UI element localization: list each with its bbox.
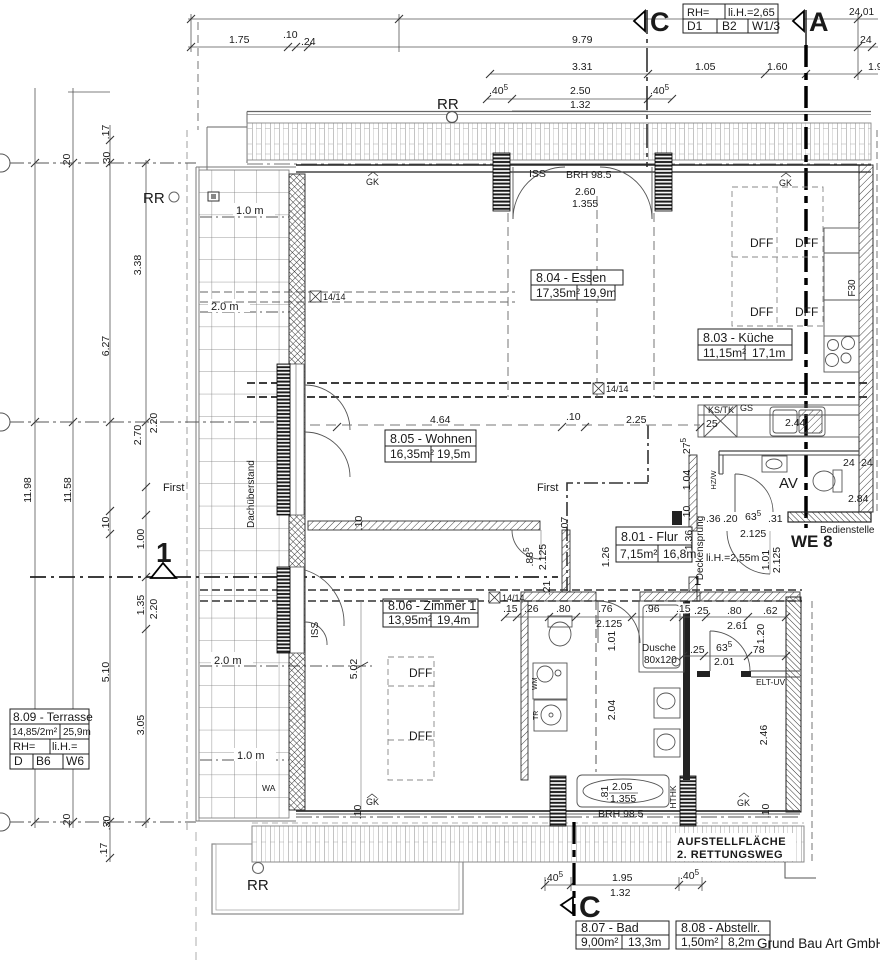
svg-text:W1/3: W1/3 <box>752 19 780 33</box>
kitchen right counter <box>824 228 859 372</box>
svg-text:First: First <box>163 482 184 494</box>
svg-text:li.H.=: li.H.= <box>52 741 77 753</box>
svg-text:2.61: 2.61 <box>727 620 748 632</box>
svg-text:First: First <box>537 482 558 494</box>
svg-text:D: D <box>14 754 23 768</box>
svg-text:DFF: DFF <box>409 729 432 743</box>
bath fixtures <box>533 601 684 807</box>
svg-text:.15: .15 <box>503 603 518 615</box>
svg-text:3.31: 3.31 <box>572 61 593 73</box>
svg-text:C: C <box>579 891 601 924</box>
svg-text:11.58: 11.58 <box>62 477 74 503</box>
svg-text:2.25: 2.25 <box>626 414 647 426</box>
svg-text:.30: .30 <box>101 152 113 167</box>
svg-text:5.02: 5.02 <box>348 659 360 680</box>
Wohnen dim row <box>310 424 700 426</box>
svg-text:AUFSTELLFLÄCHE: AUFSTELLFLÄCHE <box>677 835 786 848</box>
svg-text:GK: GK <box>366 797 379 807</box>
AV fixtures <box>762 456 842 492</box>
svg-text:W6: W6 <box>66 754 84 768</box>
svg-text:8.08 - Abstellr.: 8.08 - Abstellr. <box>681 921 760 935</box>
svg-text:.26: .26 <box>524 603 539 615</box>
svg-text:.80: .80 <box>556 603 571 615</box>
svg-text:19,4m: 19,4m <box>437 613 470 627</box>
svg-text:.15: .15 <box>676 603 691 615</box>
svg-text:1.355: 1.355 <box>572 198 598 210</box>
bath top dim row <box>505 617 786 656</box>
bottom wall <box>296 776 800 826</box>
svg-text:.10: .10 <box>283 29 298 41</box>
svg-text:.21: .21 <box>541 581 553 596</box>
svg-text:F30: F30 <box>847 279 858 297</box>
svg-text:ELT-UV: ELT-UV <box>756 677 785 687</box>
svg-text:13,3m: 13,3m <box>628 935 661 949</box>
svg-text:11.98: 11.98 <box>22 477 34 503</box>
svg-text:8.01 - Flur: 8.01 - Flur <box>621 530 678 544</box>
svg-text:1.36: 1.36 <box>683 530 695 551</box>
svg-text:2.05: 2.05 <box>612 781 633 793</box>
svg-text:WA: WA <box>262 783 276 793</box>
svg-text:1.355: 1.355 <box>610 793 636 805</box>
wall Flur/kitchen divider vertical <box>562 455 770 592</box>
svg-text:6.27: 6.27 <box>100 336 112 357</box>
abstell top wall <box>697 592 800 601</box>
lower right wall <box>786 597 801 812</box>
svg-text:11,15m²: 11,15m² <box>703 346 746 360</box>
AV room walls <box>719 451 859 512</box>
svg-text:13,95m²: 13,95m² <box>388 613 432 627</box>
svg-text:.76: .76 <box>598 603 613 615</box>
svg-text:1.32: 1.32 <box>570 99 591 111</box>
svg-text:RR: RR <box>247 877 269 894</box>
svg-text:9.79: 9.79 <box>572 34 593 46</box>
svg-text:KS/TK: KS/TK <box>708 405 734 415</box>
RR circle top <box>447 112 458 123</box>
svg-text:8.05 - Wohnen: 8.05 - Wohnen <box>390 432 472 446</box>
svg-text:24: 24 <box>843 457 855 469</box>
section 1 left <box>30 537 558 578</box>
DFF dashed rects kitchen <box>388 187 823 780</box>
svg-text:.78: .78 <box>750 644 765 656</box>
section A <box>793 7 829 528</box>
top table <box>683 4 780 33</box>
svg-text:.20: .20 <box>723 513 738 525</box>
svg-text:Dachüberstand: Dachüberstand <box>246 460 257 528</box>
Essen <box>531 270 623 300</box>
svg-text:2.125: 2.125 <box>596 618 622 630</box>
roof height contour lines on terrace <box>200 217 376 760</box>
dashed verticals in Essen (roof window) <box>507 213 509 397</box>
WM <box>533 663 567 699</box>
svg-text:16,35m²: 16,35m² <box>390 447 434 461</box>
svg-text:4.64: 4.64 <box>430 414 451 426</box>
Bad <box>576 921 669 949</box>
bath right wall <box>683 601 690 780</box>
Terrasse <box>10 709 93 769</box>
svg-text:2.70: 2.70 <box>132 425 144 446</box>
top roof overhang band <box>247 112 871 165</box>
svg-text:AV: AV <box>779 475 798 492</box>
bath left wall <box>521 601 528 780</box>
pillar at flur corner <box>672 511 682 525</box>
svg-text:2.20: 2.20 <box>148 413 160 434</box>
svg-text:1.9: 1.9 <box>868 61 880 73</box>
svg-text:B6: B6 <box>36 754 51 768</box>
section C top <box>567 7 670 592</box>
svg-text:.62: .62 <box>763 605 778 617</box>
bathtub <box>577 775 669 807</box>
bath dashed divider <box>595 601 597 772</box>
svg-text:14/14: 14/14 <box>606 384 629 394</box>
svg-text:Deckensprung: Deckensprung <box>695 516 706 580</box>
svg-text:.20: .20 <box>61 154 73 169</box>
svg-text:2.125: 2.125 <box>537 544 549 570</box>
svg-text:8.09 - Terrasse: 8.09 - Terrasse <box>13 710 93 724</box>
svg-text:.30: .30 <box>101 816 113 831</box>
svg-text:TR: TR <box>533 711 540 720</box>
svg-text:2.125: 2.125 <box>740 528 766 540</box>
svg-text:.96: .96 <box>645 603 660 615</box>
svg-text:Dusche: Dusche <box>642 643 676 654</box>
svg-text:2.04: 2.04 <box>606 700 618 721</box>
svg-text:.07: .07 <box>559 517 571 532</box>
svg-text:DFF: DFF <box>795 305 818 319</box>
svg-text:.10: .10 <box>566 411 581 423</box>
GK markers <box>366 177 792 808</box>
svg-text:14/14: 14/14 <box>502 593 525 603</box>
svg-text:2.0 m: 2.0 m <box>211 301 239 313</box>
5.02 extension line <box>360 601 362 810</box>
svg-text:8,2m: 8,2m <box>728 935 755 949</box>
svg-text:1.60: 1.60 <box>767 61 788 73</box>
svg-text:1.35: 1.35 <box>135 595 147 616</box>
left wall hatched <box>277 174 350 810</box>
Flur <box>616 527 696 562</box>
bath top wall <box>521 592 800 780</box>
14/14 markers <box>310 291 629 603</box>
top wall <box>296 153 871 219</box>
svg-text:GK: GK <box>737 798 750 808</box>
svg-text:1.95: 1.95 <box>612 872 633 884</box>
Zimmer 1 <box>383 599 478 627</box>
svg-text:.17: .17 <box>100 125 112 140</box>
svg-text:.25: .25 <box>690 644 705 656</box>
svg-text:A: A <box>809 7 829 37</box>
kitchen labels <box>262 403 753 793</box>
svg-text:1.0 m: 1.0 m <box>237 750 265 762</box>
svg-text:DFF: DFF <box>750 236 773 250</box>
Aufstellflaeche label <box>672 833 796 861</box>
window piers <box>493 153 510 211</box>
svg-text:1.32: 1.32 <box>610 887 631 899</box>
svg-text:19,9m: 19,9m <box>583 286 616 300</box>
Wohnen <box>385 430 476 462</box>
svg-text:14/14: 14/14 <box>323 292 346 302</box>
svg-text:BRH 98.5: BRH 98.5 <box>566 169 612 181</box>
bath window piers <box>550 776 566 826</box>
svg-text:2.60: 2.60 <box>575 186 596 198</box>
svg-text:RR: RR <box>143 190 165 207</box>
Kueche <box>698 329 792 360</box>
svg-text:2.01: 2.01 <box>714 656 735 668</box>
svg-text:li.H.=2,65: li.H.=2,65 <box>728 7 775 19</box>
svg-text:14,85/2m²: 14,85/2m² <box>12 727 58 738</box>
svg-text:2.125: 2.125 <box>771 547 783 573</box>
svg-text:2.0 m: 2.0 m <box>214 655 242 667</box>
svg-text:.25: .25 <box>694 605 709 617</box>
Dusche <box>639 601 684 672</box>
svg-text:HTHK: HTHK <box>668 785 678 808</box>
svg-text:C: C <box>650 7 670 37</box>
svg-text:.31: .31 <box>768 513 783 525</box>
svg-text:li.H.=2,55m: li.H.=2,55m <box>706 552 760 564</box>
svg-text:ISS: ISS <box>529 168 546 180</box>
svg-text:RH=: RH= <box>687 7 709 19</box>
svg-text:1.05: 1.05 <box>695 61 716 73</box>
svg-text:2.84: 2.84 <box>848 493 869 505</box>
window bands in left wall <box>277 364 290 515</box>
svg-text:B2: B2 <box>722 19 737 33</box>
svg-text:8.04 - Essen: 8.04 - Essen <box>536 271 606 285</box>
svg-text:Bedienstelle: Bedienstelle <box>820 525 875 536</box>
svg-text:.80: .80 <box>727 605 742 617</box>
svg-text:DFF: DFF <box>409 666 432 680</box>
svg-text:2.44: 2.44 <box>785 417 806 429</box>
svg-text:17,35m²: 17,35m² <box>536 286 580 300</box>
svg-text:25: 25 <box>706 418 718 430</box>
svg-text:24: 24 <box>860 34 872 46</box>
svg-text:RH=: RH= <box>13 741 35 753</box>
svg-text:2. RETTUNGSWEG: 2. RETTUNGSWEG <box>677 849 783 861</box>
right boundary dashed <box>876 130 878 512</box>
svg-text:25,9m: 25,9m <box>63 727 91 738</box>
flur dims <box>694 509 783 588</box>
door arcs from left wall <box>305 385 350 430</box>
wall Wohnen/Zimmer1 <box>308 521 541 559</box>
sink <box>770 407 825 436</box>
right wall hatched <box>786 165 873 812</box>
svg-text:2.46: 2.46 <box>758 725 770 746</box>
svg-text:.10: .10 <box>760 804 772 819</box>
svg-text:.10: .10 <box>681 506 693 521</box>
kitchen top counter <box>698 405 859 437</box>
bottom roof overhang band <box>212 823 816 914</box>
toilet bath <box>548 616 572 627</box>
svg-text:8.07 - Bad: 8.07 - Bad <box>581 921 639 935</box>
svg-text:1.75: 1.75 <box>229 34 250 46</box>
svg-text:1.00: 1.00 <box>135 529 147 550</box>
toilet <box>833 470 842 492</box>
svg-text:1.26: 1.26 <box>600 547 612 568</box>
rotated small dims <box>348 279 858 819</box>
svg-text:GK: GK <box>366 177 379 187</box>
svg-text:.10: .10 <box>353 516 365 531</box>
svg-text:.20: .20 <box>61 814 73 829</box>
grid bubbles <box>0 154 10 831</box>
ISS double door <box>510 163 655 165</box>
svg-text:HZ/W: HZ/W <box>709 470 718 490</box>
svg-text:3.38: 3.38 <box>132 255 144 276</box>
svg-text:BRH 98.5: BRH 98.5 <box>598 808 644 820</box>
svg-text:.10: .10 <box>352 805 364 820</box>
svg-text:GK: GK <box>779 178 792 188</box>
svg-text:5.10: 5.10 <box>100 662 112 683</box>
svg-text:GS: GS <box>740 403 753 413</box>
svg-text:80x120: 80x120 <box>644 655 677 666</box>
svg-text:RR: RR <box>437 96 459 113</box>
svg-text:.17: .17 <box>98 843 110 858</box>
abstell lower wall with door <box>697 671 710 677</box>
grid dash-dot horizontals <box>10 163 289 822</box>
svg-text:1.04: 1.04 <box>681 470 693 491</box>
svg-text:24,01: 24,01 <box>849 7 874 18</box>
svg-text:19,5m: 19,5m <box>437 447 470 461</box>
svg-text:9,00m²: 9,00m² <box>581 935 618 949</box>
svg-text:DFF: DFF <box>750 305 773 319</box>
svg-text:1.0 m: 1.0 m <box>236 205 264 217</box>
svg-text:.24: .24 <box>301 36 316 48</box>
extension verticals <box>190 14 192 52</box>
svg-text:8.03 - Küche: 8.03 - Küche <box>703 331 774 345</box>
svg-text:2.50: 2.50 <box>570 85 591 97</box>
svg-text:2.20: 2.20 <box>148 599 160 620</box>
svg-text:7,15m²: 7,15m² <box>620 547 657 561</box>
AV bottom black wall <box>788 512 871 522</box>
TR <box>534 700 567 731</box>
svg-text:1.20: 1.20 <box>755 624 767 645</box>
svg-text:.36: .36 <box>706 513 721 525</box>
svg-text:DFF: DFF <box>795 236 818 250</box>
Abstellraum <box>676 921 770 949</box>
section C bottom <box>561 822 601 924</box>
svg-text:D1: D1 <box>687 19 703 33</box>
svg-text:24: 24 <box>861 457 873 469</box>
svg-text:3.05: 3.05 <box>135 715 147 736</box>
svg-text:.10: .10 <box>100 517 112 532</box>
svg-text:1.01: 1.01 <box>606 631 618 652</box>
basins <box>654 688 680 718</box>
svg-text:Grund Bau Art GmbH: Grund Bau Art GmbH <box>757 936 880 951</box>
svg-text:1,50m²: 1,50m² <box>681 935 718 949</box>
svg-text:17,1m: 17,1m <box>752 346 785 360</box>
svg-text:ISS: ISS <box>310 622 321 638</box>
svg-text:WM: WM <box>532 677 539 690</box>
